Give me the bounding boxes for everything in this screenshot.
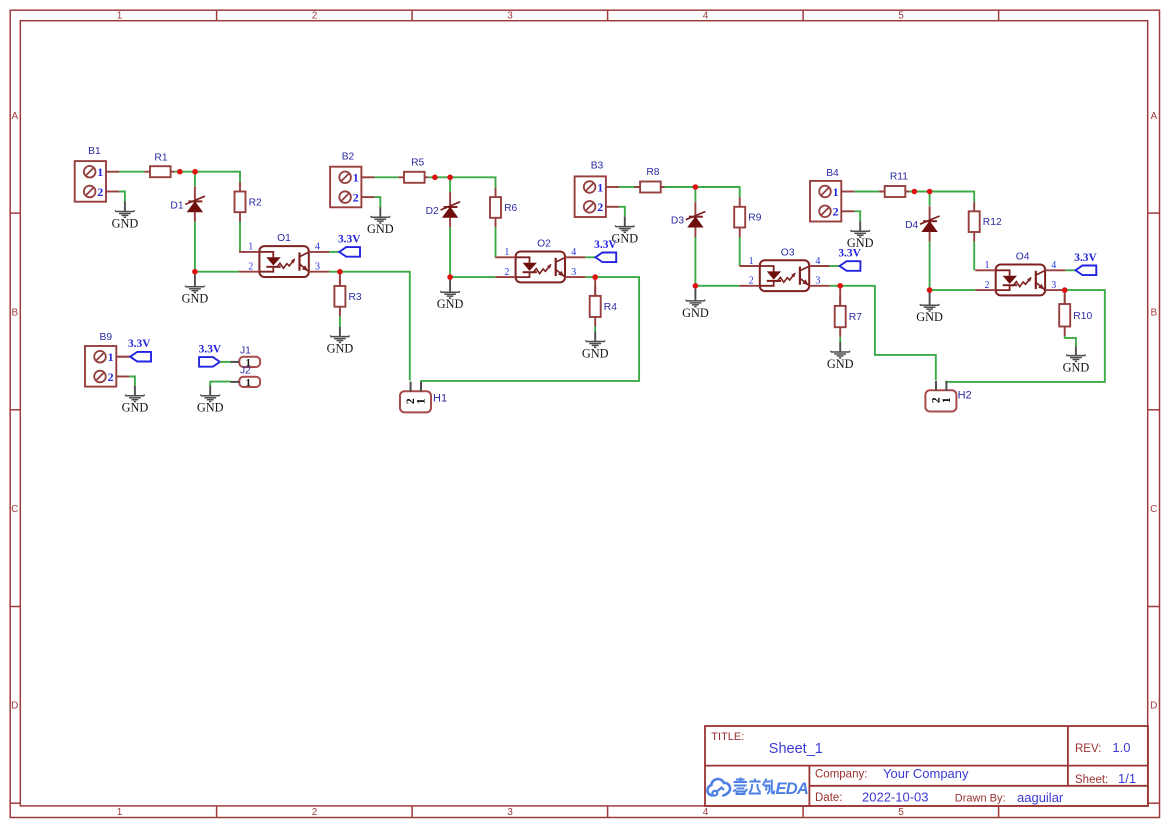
- svg-text:3.3V: 3.3V: [199, 343, 222, 355]
- svg-text:1: 1: [749, 256, 754, 267]
- svg-text:4: 4: [315, 242, 320, 253]
- svg-text:B3: B3: [591, 161, 604, 172]
- svg-text:J2: J2: [240, 366, 251, 377]
- svg-text:3: 3: [815, 276, 820, 287]
- svg-text:B9: B9: [99, 332, 112, 343]
- svg-text:REV:: REV:: [1075, 743, 1101, 755]
- svg-text:O4: O4: [1016, 252, 1030, 263]
- svg-text:B4: B4: [826, 168, 839, 179]
- svg-text:2: 2: [985, 280, 990, 291]
- svg-text:GND: GND: [197, 401, 224, 415]
- svg-text:1: 1: [108, 350, 114, 364]
- svg-text:Sheet:: Sheet:: [1075, 774, 1108, 786]
- svg-text:Date:: Date:: [815, 792, 843, 804]
- svg-text:R9: R9: [748, 213, 761, 224]
- svg-text:2: 2: [749, 276, 754, 287]
- svg-text:1: 1: [97, 165, 103, 179]
- svg-text:R1: R1: [154, 153, 167, 164]
- svg-text:2: 2: [108, 370, 114, 384]
- svg-text:3: 3: [507, 807, 513, 818]
- svg-text:1: 1: [246, 377, 252, 389]
- svg-text:C: C: [11, 504, 18, 515]
- svg-text:R4: R4: [604, 302, 617, 313]
- svg-text:1: 1: [833, 185, 839, 199]
- svg-text:Drawn By:: Drawn By:: [955, 792, 1006, 804]
- svg-text:Company:: Company:: [815, 769, 867, 781]
- svg-text:J1: J1: [240, 346, 251, 357]
- svg-text:4: 4: [815, 256, 820, 267]
- svg-text:1: 1: [985, 260, 990, 271]
- svg-text:H2: H2: [958, 389, 972, 401]
- svg-text:Your Company: Your Company: [883, 766, 969, 781]
- svg-text:R2: R2: [249, 197, 262, 208]
- svg-text:GND: GND: [847, 236, 874, 250]
- svg-text:R3: R3: [349, 292, 362, 303]
- svg-text:1: 1: [353, 171, 359, 185]
- svg-text:B1: B1: [88, 146, 101, 157]
- svg-text:EDA: EDA: [776, 780, 808, 798]
- svg-text:GND: GND: [827, 357, 854, 371]
- svg-text:GND: GND: [582, 346, 609, 360]
- svg-text:A: A: [11, 111, 18, 122]
- svg-text:2: 2: [248, 262, 253, 273]
- svg-text:C: C: [1150, 504, 1157, 515]
- svg-text:TITLE:: TITLE:: [711, 731, 744, 743]
- svg-text:B: B: [1150, 308, 1157, 319]
- svg-text:2022-10-03: 2022-10-03: [862, 789, 929, 804]
- svg-text:2: 2: [312, 11, 318, 22]
- svg-text:D: D: [1150, 701, 1157, 712]
- svg-text:R11: R11: [890, 171, 908, 182]
- svg-text:3: 3: [571, 267, 576, 278]
- svg-text:aaguilar: aaguilar: [1017, 790, 1064, 805]
- svg-text:2: 2: [353, 190, 359, 204]
- svg-text:1: 1: [117, 11, 123, 22]
- svg-text:2: 2: [97, 185, 103, 199]
- svg-text:2: 2: [312, 807, 318, 818]
- svg-text:4: 4: [1051, 260, 1056, 271]
- svg-text:D: D: [11, 701, 18, 712]
- svg-text:1/1: 1/1: [1118, 771, 1136, 786]
- svg-text:GND: GND: [437, 297, 464, 311]
- svg-text:1: 1: [117, 807, 123, 818]
- svg-text:Sheet_1: Sheet_1: [769, 741, 823, 757]
- svg-text:R8: R8: [646, 167, 659, 178]
- svg-text:3.3V: 3.3V: [128, 338, 151, 350]
- svg-text:GND: GND: [367, 222, 394, 236]
- svg-text:1: 1: [941, 397, 953, 403]
- svg-text:R10: R10: [1073, 311, 1092, 322]
- svg-text:H1: H1: [433, 392, 447, 404]
- svg-text:4: 4: [703, 807, 709, 818]
- svg-text:D4: D4: [905, 220, 918, 231]
- svg-text:3: 3: [1051, 280, 1056, 291]
- svg-text:R5: R5: [411, 158, 424, 169]
- svg-text:5: 5: [898, 807, 904, 818]
- svg-text:O3: O3: [781, 247, 795, 258]
- svg-text:4: 4: [571, 247, 576, 258]
- svg-text:D1: D1: [170, 200, 183, 211]
- svg-text:1: 1: [416, 398, 428, 404]
- svg-text:GND: GND: [1063, 361, 1090, 375]
- svg-text:O2: O2: [537, 239, 551, 250]
- svg-text:GND: GND: [682, 306, 709, 320]
- svg-text:D2: D2: [426, 206, 439, 217]
- svg-text:GND: GND: [112, 216, 139, 230]
- svg-text:3.3V: 3.3V: [1074, 252, 1097, 264]
- svg-text:3: 3: [315, 262, 320, 273]
- svg-text:3.3V: 3.3V: [338, 233, 361, 245]
- svg-text:B2: B2: [342, 151, 355, 162]
- svg-text:B: B: [11, 308, 18, 319]
- svg-text:A: A: [1150, 111, 1157, 122]
- svg-text:4: 4: [703, 11, 709, 22]
- svg-text:3: 3: [507, 11, 513, 22]
- svg-text:2: 2: [504, 267, 509, 278]
- svg-text:D3: D3: [671, 216, 684, 227]
- svg-text:GND: GND: [182, 292, 209, 306]
- svg-text:O1: O1: [277, 233, 291, 244]
- svg-text:GND: GND: [611, 232, 638, 246]
- svg-text:2: 2: [597, 200, 603, 214]
- svg-text:1: 1: [597, 180, 603, 194]
- svg-text:1: 1: [504, 247, 509, 258]
- svg-text:5: 5: [898, 11, 904, 22]
- svg-text:GND: GND: [327, 342, 354, 356]
- svg-text:2: 2: [833, 205, 839, 219]
- svg-text:R6: R6: [504, 203, 517, 214]
- svg-text:1: 1: [248, 242, 253, 253]
- svg-text:R7: R7: [849, 312, 862, 323]
- svg-text:1.0: 1.0: [1112, 740, 1130, 755]
- svg-text:GND: GND: [916, 310, 943, 324]
- svg-text:GND: GND: [122, 401, 149, 415]
- svg-text:R12: R12: [983, 217, 1002, 228]
